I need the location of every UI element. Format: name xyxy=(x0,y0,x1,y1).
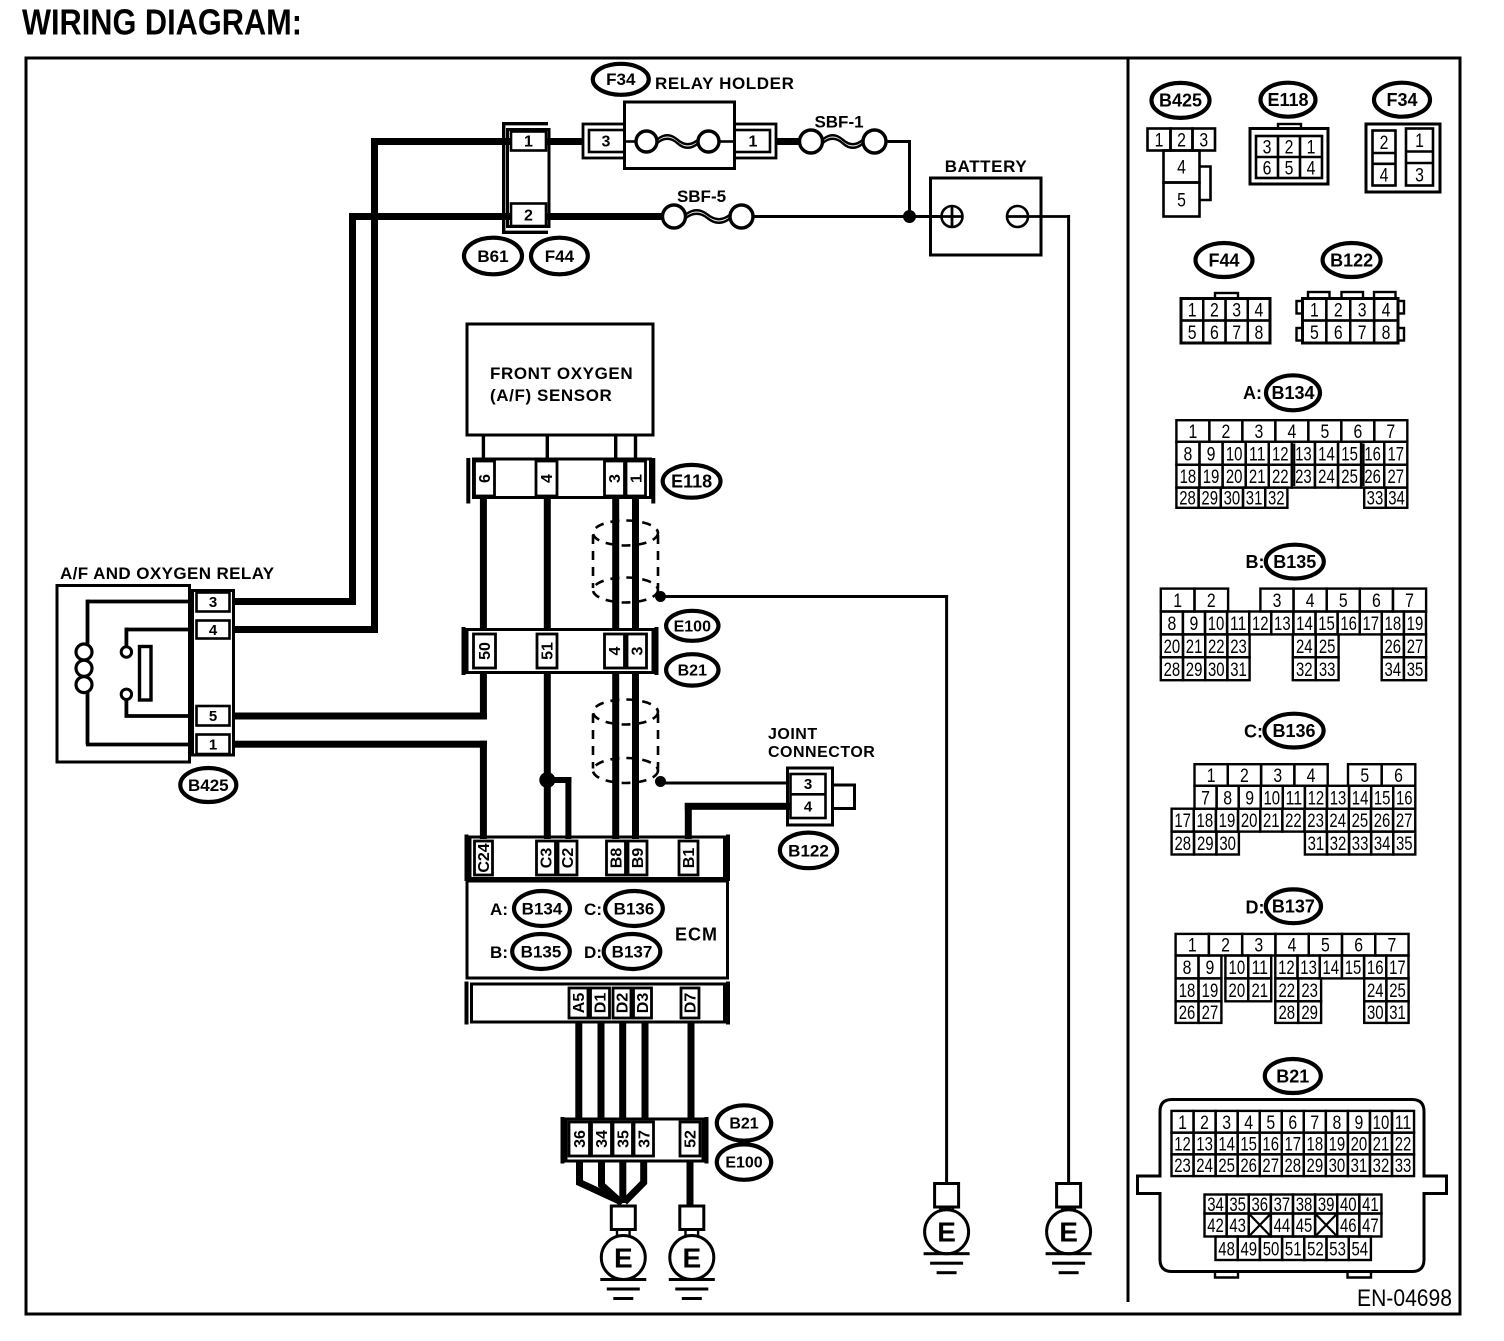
svg-text:D:: D: xyxy=(584,943,602,962)
svg-text:4: 4 xyxy=(804,799,813,816)
svg-text:B135: B135 xyxy=(521,943,562,962)
svg-text:7: 7 xyxy=(1358,322,1367,344)
svg-text:24: 24 xyxy=(1318,466,1335,488)
svg-text:4: 4 xyxy=(1244,1112,1253,1134)
svg-text:5: 5 xyxy=(1339,590,1348,612)
svg-text:54: 54 xyxy=(1352,1238,1369,1260)
svg-text:34: 34 xyxy=(1388,488,1405,510)
svg-text:21: 21 xyxy=(1251,980,1268,1002)
svg-text:28: 28 xyxy=(1284,1155,1301,1177)
svg-text:1: 1 xyxy=(1188,421,1197,443)
svg-text:1: 1 xyxy=(1307,137,1316,159)
svg-text:2: 2 xyxy=(1210,300,1219,322)
svg-text:12: 12 xyxy=(1252,613,1269,635)
svg-text:15: 15 xyxy=(1374,787,1391,809)
svg-text:24: 24 xyxy=(1367,980,1384,1002)
svg-text:4: 4 xyxy=(1307,158,1316,180)
svg-text:5: 5 xyxy=(1310,322,1319,344)
svg-text:3: 3 xyxy=(1273,590,1282,612)
svg-text:E: E xyxy=(682,1242,701,1273)
svg-text:B137: B137 xyxy=(612,943,653,962)
svg-text:1: 1 xyxy=(1188,300,1197,322)
svg-text:D2: D2 xyxy=(615,993,632,1014)
svg-text:12: 12 xyxy=(1278,957,1295,979)
svg-text:2: 2 xyxy=(1221,935,1230,957)
svg-text:3: 3 xyxy=(602,134,611,151)
svg-text:3: 3 xyxy=(1222,1112,1231,1134)
svg-text:16: 16 xyxy=(1367,957,1384,979)
svg-text:30: 30 xyxy=(1329,1155,1346,1177)
svg-text:18: 18 xyxy=(1179,980,1196,1002)
svg-text:10: 10 xyxy=(1373,1112,1390,1134)
svg-text:21: 21 xyxy=(1373,1134,1390,1156)
svg-text:C:: C: xyxy=(1244,722,1263,742)
svg-text:23: 23 xyxy=(1301,980,1318,1002)
svg-text:5: 5 xyxy=(1320,421,1329,443)
svg-text:8: 8 xyxy=(1167,613,1176,635)
svg-text:11: 11 xyxy=(1251,957,1268,979)
svg-text:2: 2 xyxy=(1380,132,1389,154)
svg-text:7: 7 xyxy=(1201,787,1210,809)
svg-text:E118: E118 xyxy=(671,472,712,492)
svg-text:29: 29 xyxy=(1197,833,1214,855)
svg-text:15: 15 xyxy=(1318,613,1335,635)
svg-text:8: 8 xyxy=(1255,322,1264,344)
svg-text:32: 32 xyxy=(1330,833,1347,855)
svg-text:33: 33 xyxy=(1352,833,1369,855)
svg-text:4: 4 xyxy=(1380,165,1389,187)
svg-text:15: 15 xyxy=(1345,957,1362,979)
svg-text:6: 6 xyxy=(1210,322,1219,344)
svg-text:27: 27 xyxy=(1202,1002,1219,1024)
svg-text:37: 37 xyxy=(636,1130,653,1148)
svg-text:14: 14 xyxy=(1218,1134,1235,1156)
svg-text:16: 16 xyxy=(1262,1134,1279,1156)
svg-text:13: 13 xyxy=(1300,957,1317,979)
svg-text:5: 5 xyxy=(1285,158,1294,180)
svg-text:4: 4 xyxy=(1287,421,1296,443)
svg-text:10: 10 xyxy=(1226,443,1243,465)
svg-text:27: 27 xyxy=(1407,636,1424,658)
svg-text:32: 32 xyxy=(1373,1155,1390,1177)
svg-text:B61: B61 xyxy=(477,247,508,266)
svg-text:1: 1 xyxy=(209,737,217,754)
svg-text:33: 33 xyxy=(1319,659,1336,681)
svg-text:13: 13 xyxy=(1274,613,1291,635)
svg-text:45: 45 xyxy=(1296,1215,1313,1237)
svg-text:E118: E118 xyxy=(1267,90,1308,110)
svg-text:22: 22 xyxy=(1208,636,1225,658)
svg-text:4: 4 xyxy=(539,474,556,483)
svg-text:34: 34 xyxy=(1374,833,1391,855)
svg-text:30: 30 xyxy=(1208,659,1225,681)
svg-text:1: 1 xyxy=(1173,590,1182,612)
svg-text:B122: B122 xyxy=(788,841,829,860)
svg-text:25: 25 xyxy=(1218,1155,1235,1177)
svg-text:28: 28 xyxy=(1175,833,1192,855)
svg-text:23: 23 xyxy=(1307,810,1324,832)
svg-text:16: 16 xyxy=(1340,613,1357,635)
svg-text:25: 25 xyxy=(1389,980,1406,1002)
svg-text:4: 4 xyxy=(1306,590,1315,612)
svg-text:23: 23 xyxy=(1230,636,1247,658)
svg-text:13: 13 xyxy=(1295,443,1312,465)
svg-text:B136: B136 xyxy=(614,900,655,919)
svg-text:B122: B122 xyxy=(1330,250,1373,270)
svg-text:3: 3 xyxy=(1254,935,1263,957)
svg-text:3: 3 xyxy=(1254,421,1263,443)
svg-text:6: 6 xyxy=(1334,322,1343,344)
svg-text:11: 11 xyxy=(1249,443,1266,465)
svg-text:22: 22 xyxy=(1278,980,1295,1002)
svg-text:2: 2 xyxy=(1285,137,1294,159)
svg-text:8: 8 xyxy=(1382,322,1391,344)
svg-text:4: 4 xyxy=(1307,765,1316,787)
svg-text:17: 17 xyxy=(1284,1134,1301,1156)
svg-text:A:: A: xyxy=(1243,383,1262,403)
svg-text:51: 51 xyxy=(540,642,557,660)
svg-text:33: 33 xyxy=(1395,1155,1412,1177)
svg-text:19: 19 xyxy=(1203,466,1220,488)
svg-text:6: 6 xyxy=(1372,590,1381,612)
svg-text:21: 21 xyxy=(1249,466,1266,488)
svg-text:18: 18 xyxy=(1307,1134,1324,1156)
svg-text:1: 1 xyxy=(1207,765,1216,787)
svg-text:C24: C24 xyxy=(476,843,493,872)
svg-text:19: 19 xyxy=(1329,1134,1346,1156)
svg-text:10: 10 xyxy=(1263,787,1280,809)
svg-text:33: 33 xyxy=(1367,488,1384,510)
svg-text:29: 29 xyxy=(1201,488,1218,510)
svg-text:B134: B134 xyxy=(1271,383,1314,403)
svg-text:8: 8 xyxy=(1332,1112,1341,1134)
svg-text:46: 46 xyxy=(1340,1215,1357,1237)
svg-text:E: E xyxy=(937,1217,956,1248)
svg-text:21: 21 xyxy=(1186,636,1203,658)
svg-text:11: 11 xyxy=(1395,1112,1412,1134)
svg-text:3: 3 xyxy=(1358,300,1367,322)
svg-text:7: 7 xyxy=(1386,421,1395,443)
svg-text:51: 51 xyxy=(1285,1238,1302,1260)
svg-text:2: 2 xyxy=(1334,300,1343,322)
svg-text:3: 3 xyxy=(629,646,646,655)
svg-text:6: 6 xyxy=(1263,158,1272,180)
svg-text:7: 7 xyxy=(1232,322,1241,344)
svg-text:20: 20 xyxy=(1351,1134,1368,1156)
svg-text:C2: C2 xyxy=(560,848,577,869)
svg-text:35: 35 xyxy=(1407,659,1424,681)
svg-text:35: 35 xyxy=(1396,833,1413,855)
svg-text:12: 12 xyxy=(1272,443,1289,465)
svg-text:6: 6 xyxy=(1288,1112,1297,1134)
svg-text:4: 4 xyxy=(607,646,624,655)
svg-text:6: 6 xyxy=(1354,935,1363,957)
svg-text:C3: C3 xyxy=(539,848,556,869)
svg-text:27: 27 xyxy=(1387,466,1404,488)
svg-text:12: 12 xyxy=(1308,787,1325,809)
svg-text:2: 2 xyxy=(1177,130,1186,152)
svg-text:26: 26 xyxy=(1240,1155,1257,1177)
svg-text:28: 28 xyxy=(1179,488,1196,510)
svg-text:B425: B425 xyxy=(188,776,229,795)
svg-text:D3: D3 xyxy=(635,993,652,1014)
svg-text:20: 20 xyxy=(1226,466,1243,488)
svg-text:26: 26 xyxy=(1364,466,1381,488)
svg-text:26: 26 xyxy=(1179,1002,1196,1024)
svg-text:3: 3 xyxy=(1199,130,1208,152)
svg-text:9: 9 xyxy=(1207,443,1216,465)
svg-text:44: 44 xyxy=(1274,1215,1291,1237)
svg-text:29: 29 xyxy=(1307,1155,1324,1177)
svg-text:E: E xyxy=(1059,1217,1078,1248)
svg-text:FRONT OXYGEN: FRONT OXYGEN xyxy=(490,364,633,383)
svg-text:42: 42 xyxy=(1207,1215,1224,1237)
svg-text:B:: B: xyxy=(490,943,508,962)
svg-text:29: 29 xyxy=(1301,1002,1318,1024)
svg-text:(A/F) SENSOR: (A/F) SENSOR xyxy=(490,386,612,405)
svg-text:A:: A: xyxy=(490,900,508,919)
svg-text:52: 52 xyxy=(1307,1238,1324,1260)
svg-text:E100: E100 xyxy=(725,1155,762,1172)
svg-text:B9: B9 xyxy=(630,848,647,869)
svg-text:22: 22 xyxy=(1285,810,1302,832)
svg-text:31: 31 xyxy=(1308,833,1325,855)
svg-text:E: E xyxy=(614,1242,633,1273)
svg-text:19: 19 xyxy=(1407,613,1424,635)
svg-text:1: 1 xyxy=(628,474,645,483)
svg-text:3: 3 xyxy=(1273,765,1282,787)
svg-text:13: 13 xyxy=(1196,1134,1213,1156)
svg-text:F44: F44 xyxy=(545,247,575,266)
svg-text:1: 1 xyxy=(749,134,758,151)
svg-text:34: 34 xyxy=(594,1130,611,1148)
svg-text:53: 53 xyxy=(1329,1238,1346,1260)
svg-text:20: 20 xyxy=(1229,980,1246,1002)
svg-text:20: 20 xyxy=(1241,810,1258,832)
svg-text:25: 25 xyxy=(1352,810,1369,832)
svg-text:15: 15 xyxy=(1240,1134,1257,1156)
svg-text:1: 1 xyxy=(1310,300,1319,322)
svg-text:B136: B136 xyxy=(1272,721,1315,741)
svg-text:11: 11 xyxy=(1230,613,1247,635)
svg-text:B21: B21 xyxy=(678,663,707,680)
svg-text:3: 3 xyxy=(607,474,624,483)
svg-text:21: 21 xyxy=(1263,810,1280,832)
svg-text:31: 31 xyxy=(1246,488,1263,510)
svg-text:16: 16 xyxy=(1364,443,1381,465)
svg-text:18: 18 xyxy=(1385,613,1402,635)
svg-text:CONNECTOR: CONNECTOR xyxy=(768,744,875,761)
svg-text:22: 22 xyxy=(1272,466,1289,488)
svg-text:31: 31 xyxy=(1351,1155,1368,1177)
svg-text:34: 34 xyxy=(1385,659,1402,681)
svg-text:BATTERY: BATTERY xyxy=(945,157,1028,176)
svg-text:1: 1 xyxy=(1188,935,1197,957)
svg-text:7: 7 xyxy=(1388,935,1397,957)
svg-text:4: 4 xyxy=(209,622,218,639)
svg-text:30: 30 xyxy=(1367,1002,1384,1024)
svg-text:B21: B21 xyxy=(729,1116,758,1133)
svg-text:2: 2 xyxy=(1240,765,1249,787)
svg-text:4: 4 xyxy=(1382,300,1391,322)
svg-text:23: 23 xyxy=(1174,1155,1191,1177)
svg-text:10: 10 xyxy=(1208,613,1225,635)
svg-text:36: 36 xyxy=(572,1130,589,1148)
svg-text:4: 4 xyxy=(1177,157,1186,179)
svg-text:WIRING DIAGRAM:: WIRING DIAGRAM: xyxy=(22,2,302,43)
svg-text:B21: B21 xyxy=(1276,1066,1309,1086)
svg-text:23: 23 xyxy=(1295,466,1312,488)
svg-text:5: 5 xyxy=(1188,322,1197,344)
svg-text:2: 2 xyxy=(1221,421,1230,443)
svg-text:10: 10 xyxy=(1229,957,1246,979)
svg-text:24: 24 xyxy=(1296,636,1313,658)
svg-text:50: 50 xyxy=(477,642,494,660)
svg-text:6: 6 xyxy=(1353,421,1362,443)
svg-text:1: 1 xyxy=(524,134,533,151)
svg-text:3: 3 xyxy=(209,594,217,611)
svg-text:4: 4 xyxy=(1288,935,1297,957)
svg-text:14: 14 xyxy=(1352,787,1369,809)
svg-text:4: 4 xyxy=(1255,300,1264,322)
svg-text:49: 49 xyxy=(1241,1238,1258,1260)
svg-text:31: 31 xyxy=(1389,1002,1406,1024)
svg-text:D:: D: xyxy=(1246,898,1265,918)
svg-text:30: 30 xyxy=(1224,488,1241,510)
svg-text:3: 3 xyxy=(1263,137,1272,159)
svg-text:32: 32 xyxy=(1268,488,1285,510)
svg-text:16: 16 xyxy=(1396,787,1413,809)
svg-text:48: 48 xyxy=(1218,1238,1235,1260)
svg-text:14: 14 xyxy=(1323,957,1340,979)
svg-text:17: 17 xyxy=(1362,613,1379,635)
svg-text:14: 14 xyxy=(1318,443,1335,465)
svg-text:31: 31 xyxy=(1230,659,1247,681)
svg-text:B134: B134 xyxy=(522,900,563,919)
svg-text:D7: D7 xyxy=(683,993,700,1014)
svg-text:JOINT: JOINT xyxy=(768,726,818,743)
svg-text:5: 5 xyxy=(1266,1112,1275,1134)
svg-text:22: 22 xyxy=(1395,1134,1412,1156)
svg-text:7: 7 xyxy=(1310,1112,1319,1134)
svg-text:8: 8 xyxy=(1183,957,1192,979)
svg-text:SBF-1: SBF-1 xyxy=(814,113,863,132)
svg-text:14: 14 xyxy=(1296,613,1313,635)
svg-text:28: 28 xyxy=(1278,1002,1295,1024)
svg-text:29: 29 xyxy=(1186,659,1203,681)
svg-text:12: 12 xyxy=(1174,1134,1191,1156)
svg-text:5: 5 xyxy=(1177,190,1186,212)
svg-text:20: 20 xyxy=(1164,636,1181,658)
svg-text:5: 5 xyxy=(209,708,217,725)
svg-text:24: 24 xyxy=(1329,810,1346,832)
svg-text:17: 17 xyxy=(1387,443,1404,465)
svg-text:43: 43 xyxy=(1229,1215,1246,1237)
svg-text:26: 26 xyxy=(1374,810,1391,832)
svg-text:28: 28 xyxy=(1164,659,1181,681)
svg-text:ECM: ECM xyxy=(675,925,718,945)
svg-text:B137: B137 xyxy=(1272,897,1315,917)
svg-text:8: 8 xyxy=(1184,443,1193,465)
svg-text:11: 11 xyxy=(1286,787,1303,809)
svg-text:26: 26 xyxy=(1385,636,1402,658)
svg-text:B8: B8 xyxy=(609,848,626,869)
svg-text:6: 6 xyxy=(477,474,494,483)
svg-text:F34: F34 xyxy=(606,70,636,89)
svg-text:SBF-5: SBF-5 xyxy=(677,187,726,206)
svg-text:2: 2 xyxy=(524,207,533,224)
svg-text:D1: D1 xyxy=(593,993,610,1014)
svg-text:35: 35 xyxy=(615,1130,632,1148)
svg-text:RELAY HOLDER: RELAY HOLDER xyxy=(655,74,794,93)
svg-text:9: 9 xyxy=(1245,787,1254,809)
svg-text:2: 2 xyxy=(1200,1112,1209,1134)
svg-text:8: 8 xyxy=(1223,787,1232,809)
svg-text:32: 32 xyxy=(1296,659,1313,681)
svg-text:F34: F34 xyxy=(1386,90,1417,110)
svg-text:B:: B: xyxy=(1246,552,1265,572)
svg-text:B135: B135 xyxy=(1273,552,1316,572)
svg-text:5: 5 xyxy=(1360,765,1369,787)
svg-text:9: 9 xyxy=(1206,957,1215,979)
svg-text:B425: B425 xyxy=(1159,91,1202,111)
svg-text:6: 6 xyxy=(1394,765,1403,787)
svg-text:27: 27 xyxy=(1262,1155,1279,1177)
svg-text:18: 18 xyxy=(1197,810,1214,832)
svg-text:1: 1 xyxy=(1415,130,1424,152)
svg-text:47: 47 xyxy=(1362,1215,1379,1237)
svg-text:5: 5 xyxy=(1321,935,1330,957)
svg-text:18: 18 xyxy=(1180,466,1197,488)
svg-text:17: 17 xyxy=(1174,810,1191,832)
svg-text:50: 50 xyxy=(1263,1238,1280,1260)
svg-text:EN-04698: EN-04698 xyxy=(1357,1285,1452,1312)
svg-text:E100: E100 xyxy=(674,618,711,635)
svg-text:13: 13 xyxy=(1330,787,1347,809)
svg-text:27: 27 xyxy=(1396,810,1413,832)
svg-text:30: 30 xyxy=(1219,833,1236,855)
svg-text:52: 52 xyxy=(683,1130,700,1148)
svg-text:9: 9 xyxy=(1355,1112,1364,1134)
svg-text:15: 15 xyxy=(1341,443,1358,465)
svg-text:3: 3 xyxy=(804,776,812,793)
svg-text:7: 7 xyxy=(1405,590,1414,612)
svg-text:3: 3 xyxy=(1415,164,1424,186)
svg-text:1: 1 xyxy=(1155,130,1164,152)
svg-text:A5: A5 xyxy=(571,993,588,1014)
svg-text:9: 9 xyxy=(1190,613,1199,635)
svg-text:19: 19 xyxy=(1202,980,1219,1002)
svg-text:2: 2 xyxy=(1207,590,1216,612)
svg-text:25: 25 xyxy=(1319,636,1336,658)
svg-text:F44: F44 xyxy=(1208,250,1239,270)
svg-text:24: 24 xyxy=(1196,1155,1213,1177)
svg-text:3: 3 xyxy=(1232,300,1241,322)
svg-text:25: 25 xyxy=(1341,466,1358,488)
svg-text:17: 17 xyxy=(1389,957,1406,979)
svg-text:B1: B1 xyxy=(681,848,698,869)
svg-text:1: 1 xyxy=(1178,1112,1187,1134)
svg-text:C:: C: xyxy=(584,900,602,919)
svg-text:19: 19 xyxy=(1219,810,1236,832)
svg-text:A/F AND OXYGEN RELAY: A/F AND OXYGEN RELAY xyxy=(60,564,275,583)
